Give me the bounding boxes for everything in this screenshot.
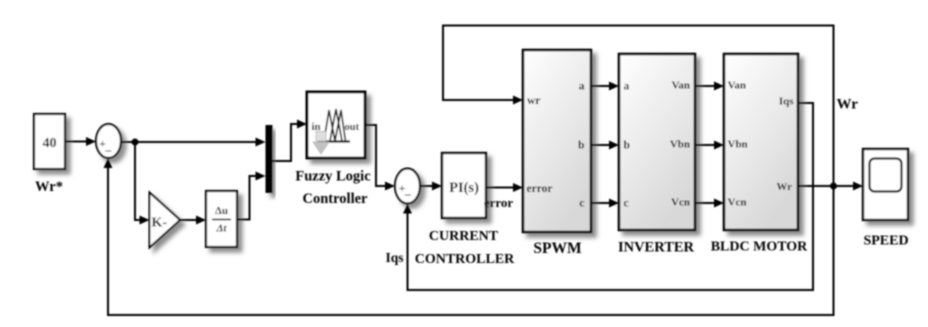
svg-text:b: b — [624, 140, 630, 152]
svg-text:Vcn: Vcn — [728, 197, 747, 209]
membership function icon baseline — [318, 140, 350, 142]
svg-text:CONTROLLER: CONTROLLER — [415, 252, 515, 267]
derivative block du/dt — [206, 191, 237, 247]
svg-text:Vcn: Vcn — [671, 197, 690, 209]
svg-text:c: c — [624, 198, 629, 210]
wire derivative to mux input 2 — [237, 172, 266, 220]
wire Iqs feedback to sum2 — [403, 103, 813, 290]
wire SPWM b to INVERTER b — [591, 141, 619, 150]
label Fuzzy Logic Controller — [295, 169, 371, 208]
svg-text:Wr: Wr — [776, 181, 792, 193]
svg-text:Fuzzy Logic: Fuzzy Logic — [295, 169, 371, 185]
svg-text:wr: wr — [527, 95, 540, 107]
wire SPWM a to INVERTER a — [591, 82, 619, 91]
svg-text:Wr: Wr — [837, 97, 859, 113]
svg-text:out: out — [345, 122, 360, 133]
svg-text:a: a — [624, 81, 630, 93]
SPWM block — [523, 50, 591, 232]
wire 40 to sum1 — [65, 137, 96, 146]
BLDC MOTOR block — [724, 54, 798, 230]
svg-text:INVERTER: INVERTER — [618, 240, 695, 256]
wire SPWM c to INVERTER c — [591, 199, 619, 208]
svg-text:Δt: Δt — [216, 223, 228, 235]
label CURRENT CONTROLLER — [415, 229, 515, 267]
wire gain to derivative — [180, 216, 206, 225]
wire INVERTER Vbn to BLDC Vbn — [695, 141, 724, 150]
svg-text:Vbn: Vbn — [670, 139, 690, 151]
svg-text:Vbn: Vbn — [728, 139, 748, 151]
wire PI to SPWM error input — [486, 183, 523, 192]
svg-text:K-: K- — [152, 216, 168, 231]
svg-text:Iqs: Iqs — [385, 250, 403, 265]
INVERTER block — [619, 54, 695, 230]
membership triangles — [324, 110, 335, 141]
wire sum2 to PI — [420, 182, 442, 191]
node junction after sum1 — [132, 139, 139, 146]
svg-text:Van: Van — [671, 80, 690, 92]
svg-text:BLDC MOTOR: BLDC MOTOR — [711, 240, 808, 255]
svg-text:Iqs: Iqs — [779, 96, 794, 108]
wire INVERTER Vcn to BLDC Vcn — [695, 199, 724, 208]
svg-text:Δu: Δu — [215, 205, 228, 217]
gain block K- — [150, 193, 181, 248]
svg-text:Wr*: Wr* — [35, 179, 63, 195]
svg-text:PI(s): PI(s) — [449, 180, 479, 196]
node Wr junction — [830, 183, 837, 190]
wire sum1 to mux input 1 — [121, 138, 266, 147]
svg-text:c: c — [579, 198, 584, 210]
wire mux to fuzzy logic controller — [273, 120, 308, 162]
wire Wr feedback bottom to sum1 — [104, 158, 834, 315]
mux block — [266, 125, 273, 193]
svg-text:SPEED: SPEED — [863, 234, 908, 249]
svg-text:error: error — [484, 195, 514, 210]
svg-text:40: 40 — [43, 136, 57, 151]
wire FLC to sum2 — [365, 125, 395, 191]
scope block SPEED — [863, 149, 908, 220]
wire junction down to gain K- — [135, 142, 150, 225]
wire INVERTER Van to BLDC Van — [695, 82, 724, 91]
svg-text:a: a — [579, 81, 585, 93]
svg-text:Controller: Controller — [303, 191, 369, 207]
svg-text:b: b — [578, 140, 584, 152]
svg-text:SPWM: SPWM — [533, 240, 582, 257]
constant block 40 (Wr*) — [34, 114, 65, 169]
svg-text:CURRENT: CURRENT — [429, 229, 499, 244]
svg-text:−: − — [105, 144, 112, 159]
PI controller block PI(s) — [442, 153, 486, 218]
fuzzy logic controller block U:FLC — [307, 92, 365, 158]
summing junction sum1 — [96, 124, 121, 159]
svg-text:Van: Van — [728, 80, 747, 92]
svg-text:−: − — [404, 188, 411, 203]
wire Wr feedback top to SPWM wr input — [443, 26, 834, 187]
summing junction sum2 — [395, 169, 420, 204]
svg-text:error: error — [527, 183, 553, 195]
gray pointer icon — [316, 132, 326, 142]
wire Wr output to junction and scope — [798, 182, 863, 191]
